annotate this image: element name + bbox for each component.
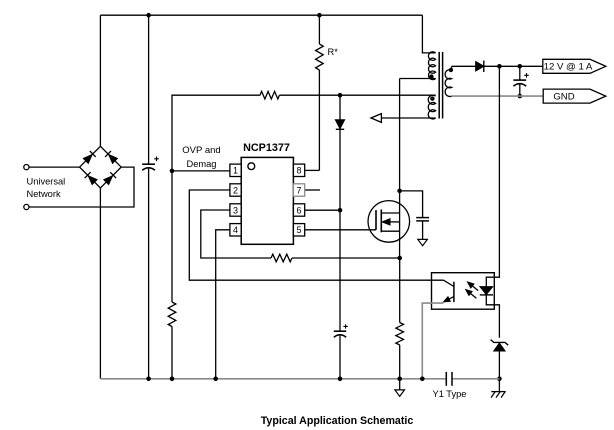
Q1 drain-source internal vertical xyxy=(399,191,401,258)
capacitor C4 (snubber) xyxy=(416,217,429,219)
bridge diode D1 (left-top edge) xyxy=(83,154,92,163)
diode D6 (output rectifier) xyxy=(476,62,484,71)
wire pin 8 to startup line xyxy=(305,169,319,171)
svg-text:Network: Network xyxy=(27,189,61,199)
pin 1 box xyxy=(230,164,241,176)
wire source to sense resistor xyxy=(399,258,401,323)
svg-text:2: 2 xyxy=(233,185,238,195)
wire LED cathode (jog right, down to zener) xyxy=(486,295,499,338)
wire pin 1 to OVP line xyxy=(172,170,230,172)
wire R3 bottom to bus xyxy=(171,327,173,379)
wire R* top lead xyxy=(318,15,320,44)
node: zener / bus junction xyxy=(497,377,502,382)
node: bus junction at x=340 xyxy=(338,377,343,382)
wire primary bottom to drain line xyxy=(400,78,436,80)
node: OVP line / pin1 junction xyxy=(170,169,175,174)
capacitor C5 (output, polarized) xyxy=(513,79,526,81)
pin 4 box xyxy=(230,224,241,236)
wire 12V to LED (down + jog left) xyxy=(486,66,499,286)
wire R4 to MOSFET source node xyxy=(292,257,400,259)
connector pennant 12 V @ 1 A xyxy=(543,59,606,73)
svg-text:6: 6 xyxy=(296,205,301,215)
ground (chassis/earth) xyxy=(491,391,505,393)
pin 7 box xyxy=(293,184,304,196)
svg-text:NCP1377: NCP1377 xyxy=(243,142,290,154)
node: drain / snubber junction xyxy=(397,189,402,194)
transformer T1 core xyxy=(438,52,440,119)
bridge rectifier diamond wires xyxy=(80,146,122,188)
node: demag line / Vcc diode junction xyxy=(338,93,343,98)
pin-1 indicator circle xyxy=(248,163,255,170)
resistor R2 (demag, horizontal) xyxy=(260,91,279,99)
terminal J1 (line input top) xyxy=(24,165,29,170)
transformer T1 primary winding xyxy=(428,52,435,80)
pin 3 box xyxy=(230,204,241,216)
capacitor C3 (Vcc, polarized) xyxy=(334,330,346,332)
wire bridge bottom vertex to ground bus xyxy=(99,188,101,379)
transistor Q1 MOSFET circle xyxy=(368,201,410,243)
wire Vcc diode top lead xyxy=(339,95,341,120)
node: GND line / output cap xyxy=(518,94,523,99)
resistor R3 (OVP lower divider) xyxy=(168,302,176,327)
bridge diode D4 (bottom-right edge) xyxy=(104,176,113,185)
op IC U1 NCP1377 body xyxy=(241,157,293,244)
phototransistor bar xyxy=(453,282,455,302)
capacitor C1 (bulk, polarized) xyxy=(142,163,155,165)
Q1 bottom (source) stub xyxy=(381,230,399,232)
zener diode D7 xyxy=(491,340,509,346)
wire pin 3 route down xyxy=(201,210,271,258)
node: top rail / R* junction xyxy=(317,13,322,18)
wire pin 2 to optocoupler collector xyxy=(189,190,443,280)
wire top rail (bulk rail) xyxy=(100,14,422,16)
capacitor C6 (Y1 safety) xyxy=(445,372,447,386)
node: bus junction at x=148.6 xyxy=(146,377,151,382)
node: bus junction at x=422.3 xyxy=(420,377,425,382)
phototransistor emitter with arrow xyxy=(445,297,454,302)
svg-text:8: 8 xyxy=(296,166,301,176)
wire pin 4 to ground bus xyxy=(216,230,231,379)
svg-text:1: 1 xyxy=(233,166,238,176)
svg-text:OVP and: OVP and xyxy=(182,145,220,156)
connector pennant GND xyxy=(543,89,606,103)
Q1 channel bar xyxy=(380,210,382,233)
wire bulk cap line lower xyxy=(148,169,150,379)
optocoupler light arrows xyxy=(470,284,478,291)
terminal J2 (line input bottom) xyxy=(24,204,29,209)
Q1 gate bar xyxy=(375,210,377,230)
pin 2 box xyxy=(230,184,241,196)
wire output cap top lead xyxy=(519,66,521,80)
pin 5 box xyxy=(293,224,304,236)
wire zener to bus xyxy=(498,351,500,392)
node: Vcc line / pin 6 junction xyxy=(338,208,343,213)
svg-text:12 V @ 1 A: 12 V @ 1 A xyxy=(544,62,593,73)
svg-text:4: 4 xyxy=(233,225,238,235)
wire demag line left + OVP vertical down xyxy=(172,95,260,302)
wire R* bottom lead down to pin 8 corner xyxy=(318,70,320,170)
wire J1 to bridge left vertex xyxy=(29,166,80,168)
wire pin 7 NC stub xyxy=(305,189,320,191)
resistor R4 (CS filter, horizontal) xyxy=(271,254,292,262)
wire secondary return (grey) to GND pennant xyxy=(452,95,544,97)
svg-text:R*: R* xyxy=(328,47,339,57)
wire emitter return (grey) to bus xyxy=(422,303,443,379)
pin 8 box xyxy=(293,164,304,176)
LED D8 inside optocoupler xyxy=(480,287,492,295)
wire Vcc line down to C3 xyxy=(339,210,341,331)
svg-text:3: 3 xyxy=(233,205,238,215)
wire C4 to ground xyxy=(422,221,424,240)
wire top rail corner down to primary xyxy=(422,15,435,53)
node: primary polarity dot xyxy=(429,74,433,78)
wire secondary top lead xyxy=(451,66,453,70)
Q1 body arrow xyxy=(390,221,400,223)
svg-text:Universal: Universal xyxy=(27,177,66,187)
node: auxiliary polarity dot xyxy=(430,96,434,100)
wire pin 6 to Vcc line xyxy=(305,209,340,211)
Q1 top (drain) stub xyxy=(381,212,399,214)
node: top rail / bulk cap junction xyxy=(146,13,151,18)
wire R5 to bus xyxy=(399,345,401,379)
wire bridge top vertex to top rail xyxy=(99,15,101,146)
wire demag horizontal line with corner down at x=172 xyxy=(279,94,435,96)
wire bulk cap line upper xyxy=(148,15,150,164)
resistor R5 (current sense) xyxy=(396,323,404,346)
optocoupler phototransistor collector xyxy=(444,280,454,286)
node: source / sense junction xyxy=(397,256,402,261)
node: 12V rail / LED branch xyxy=(497,64,502,69)
wire pin 5 to MOSFET gate xyxy=(305,229,376,231)
bridge diode D3 (bottom-left edge) xyxy=(88,176,97,185)
svg-text:Y1 Type: Y1 Type xyxy=(433,389,467,399)
svg-text:Demag: Demag xyxy=(187,159,217,169)
svg-text:GND: GND xyxy=(553,92,574,103)
optocoupler U2 box xyxy=(432,273,495,310)
resistor R* (startup) xyxy=(316,44,324,70)
wire snubber branch xyxy=(400,191,423,218)
transformer T1 auxiliary winding xyxy=(428,95,435,119)
wire C3 bottom to bus xyxy=(339,336,341,379)
svg-text:7: 7 xyxy=(296,185,301,195)
svg-text:5: 5 xyxy=(296,225,301,235)
node: bus junction at x=215.7 xyxy=(213,377,218,382)
wire aux bottom to demag arrow xyxy=(381,117,435,119)
wire secondary to output diode xyxy=(452,65,476,67)
wire primary ground bus (grey) xyxy=(100,378,446,380)
node: 12V rail / output cap xyxy=(518,64,523,69)
demag return arrow (open, pointing left) xyxy=(371,114,381,123)
wire drain line (primary to MOSFET) xyxy=(399,79,401,191)
node: bus junction at x=399.7 xyxy=(397,377,402,382)
node: bus junction at x=172 xyxy=(170,377,175,382)
wire J2 to bridge right vertex (jog) xyxy=(29,167,134,207)
svg-text:Typical Application Schematic: Typical Application Schematic xyxy=(261,415,414,427)
wire output cap bottom lead xyxy=(519,85,521,97)
ground (signal, open triangle) at snubber xyxy=(418,239,428,245)
node: secondary polarity dot xyxy=(449,68,453,72)
bridge diode D2 (right-top edge) xyxy=(109,154,118,163)
pin 6 box xyxy=(293,204,304,216)
ground (signal, open triangle) below bus at sense line xyxy=(399,379,401,390)
wire 12V rail xyxy=(484,65,543,67)
transformer T1 secondary winding xyxy=(445,70,452,97)
diode D5 (Vcc rectifier, pointing down) xyxy=(336,120,345,128)
wire Vcc line to pin6 node xyxy=(339,129,341,210)
